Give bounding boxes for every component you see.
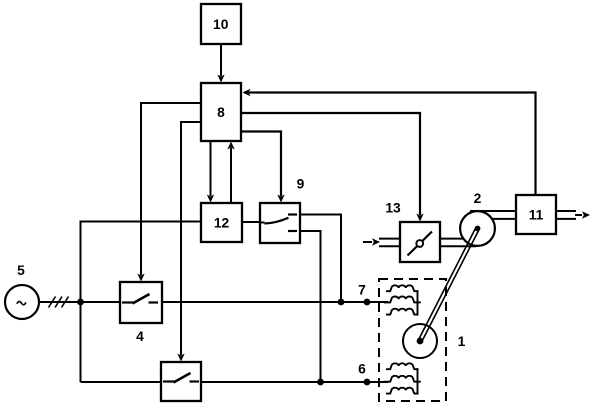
duct 13 to fan 2 (440, 239, 476, 247)
svg-text:1: 1 (458, 334, 466, 349)
svg-text:9: 9 (297, 177, 305, 192)
wire bottom rail to switch (81, 381, 162, 383)
svg-text:7: 7 (358, 283, 366, 298)
block 12 (201, 203, 242, 242)
block 10 (201, 4, 241, 44)
rotor center dot (417, 338, 424, 345)
wire 8 to 13 (241, 113, 424, 222)
wire 12 to 9 (242, 221, 260, 223)
svg-text:6: 6 (358, 362, 366, 377)
block 13 damper (400, 222, 440, 262)
wire 4 to node 7 / winding (162, 301, 388, 303)
wire 9 upper contact to node 7 (300, 215, 341, 303)
wire feedback 11 to 8 (243, 89, 536, 195)
duct outlet arrow (575, 211, 590, 218)
svg-text:5: 5 (17, 263, 25, 278)
wire 9 lower contact to node 6 (300, 231, 321, 382)
svg-text:2: 2 (474, 191, 482, 206)
shaft rotor to fan (418, 228, 479, 342)
switch block 4 (120, 282, 162, 323)
duct outlet double line (556, 211, 576, 219)
hatch marks (49, 297, 69, 308)
stator winding top (384, 285, 421, 315)
source 5 circle (5, 285, 39, 319)
duct inlet double line (379, 239, 400, 247)
rotor circle (403, 324, 437, 358)
wire bottom switch to node 6 / winding (201, 381, 388, 383)
junction dot left rail (77, 299, 84, 306)
wire 10 to 8 (217, 44, 224, 83)
wire 8 to 12 (207, 141, 214, 203)
wire 8 to 9 (241, 132, 285, 203)
node 7 junction dots (338, 299, 345, 306)
svg-text:13: 13 (385, 201, 401, 216)
wire 12 left rail (81, 222, 202, 383)
svg-text:11: 11 (529, 208, 544, 223)
wire 8 to 4 (137, 103, 201, 282)
node 6 junction dots (317, 379, 324, 386)
stator winding bottom (384, 363, 421, 394)
motor 1 dashed enclosure (379, 279, 446, 401)
block 8 (201, 83, 241, 141)
switch block 9 (260, 203, 300, 243)
bottom switch block (161, 362, 201, 401)
svg-text:12: 12 (214, 216, 230, 231)
fan 2 circle (460, 211, 495, 246)
wire 12 to 8 (227, 142, 234, 243)
duct inlet arrow (363, 238, 380, 245)
svg-text:10: 10 (213, 17, 229, 32)
svg-text:4: 4 (136, 329, 144, 344)
fan center dot (475, 226, 481, 232)
block 11 (516, 195, 556, 234)
wire source to switch 4 (40, 301, 121, 303)
svg-text:8: 8 (217, 105, 225, 120)
wire 8 to bottom switch (177, 122, 201, 362)
duct fan 2 to 11 (470, 211, 516, 219)
